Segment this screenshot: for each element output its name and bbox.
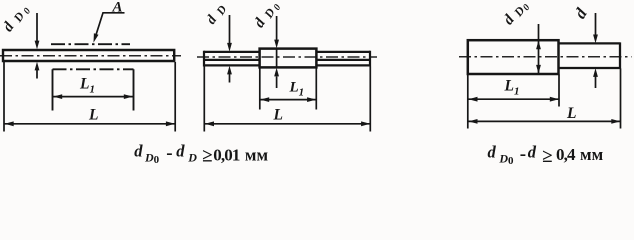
- caption 1: [134, 141, 268, 166]
- L dimension line drawing 2: [205, 123, 370, 125]
- svg-text:d: d: [176, 141, 185, 160]
- rod 3 thick body: [468, 40, 559, 74]
- svg-text:L1: L1: [504, 78, 520, 98]
- L dimension line drawing 3: [468, 120, 620, 122]
- svg-text:0: 0: [154, 154, 160, 166]
- svg-text:d: d: [251, 15, 269, 30]
- L1 extension lines drawing 3: [468, 75, 559, 129]
- svg-text:мм: мм: [245, 145, 269, 164]
- svg-text:L: L: [273, 107, 283, 124]
- centerline (axis) of rod 1: [0, 55, 181, 57]
- svg-text:D: D: [214, 3, 230, 18]
- rod 3 thin end: [559, 42, 621, 69]
- label d (rotated) drawing 3: [570, 4, 591, 22]
- svg-text:0,01: 0,01: [213, 145, 240, 164]
- centerline of rod 2: [197, 56, 377, 58]
- label d_D0 (rotated) drawing 1: [0, 1, 33, 37]
- svg-text:d: d: [570, 4, 591, 22]
- rod 1 body outline: [3, 49, 175, 62]
- svg-text:L: L: [88, 107, 98, 124]
- rod 2 end sections outline: [204, 51, 370, 67]
- svg-text:мм: мм: [580, 145, 604, 164]
- dimension d_D0 drawing 2 (vertical at thick middle): [276, 16, 278, 88]
- L extension line right drawing 3: [620, 69, 622, 129]
- dimension d_D drawing 2 (vertical at thin end): [229, 15, 231, 83]
- svg-text:d: d: [134, 141, 143, 160]
- L1 extension lines drawing 2: [260, 68, 317, 110]
- label d_D0 (rotated) drawing 3: [501, 0, 533, 30]
- svg-text:0: 0: [508, 155, 514, 167]
- svg-text:L: L: [566, 105, 576, 122]
- rod 2 thick middle section: [260, 49, 317, 68]
- svg-text:L1: L1: [289, 80, 305, 99]
- dimension d_D0 drawing 3 (inside arrows): [538, 24, 540, 74]
- svg-text:d: d: [204, 12, 221, 27]
- label d_D (rotated) drawing 2: [204, 1, 230, 28]
- svg-text:0: 0: [22, 6, 33, 16]
- leader for A: [96, 13, 125, 36]
- dimension d drawing 3 (vertical at thin end): [595, 13, 597, 88]
- svg-text:d: d: [0, 19, 18, 35]
- centerline of rod 3: [459, 56, 632, 58]
- svg-text:≥: ≥: [202, 145, 212, 166]
- dimension d_D0 drawing 1 (vertical): [36, 13, 38, 79]
- L extension lines drawing 1: [4, 62, 175, 132]
- L1 dimension line drawing 3: [468, 98, 558, 100]
- svg-text:D: D: [498, 152, 508, 166]
- label d_D0 (rotated) drawing 2: [251, 0, 283, 33]
- caption 2: [488, 142, 604, 167]
- svg-text:D: D: [144, 151, 154, 165]
- L1 dimension line drawing 1: [53, 96, 133, 98]
- svg-text:d: d: [488, 142, 497, 161]
- svg-text:0,4: 0,4: [556, 145, 576, 164]
- L dimension line drawing 1: [5, 123, 176, 125]
- L1 dimension line drawing 2: [260, 99, 316, 101]
- svg-text:≥: ≥: [542, 146, 552, 167]
- svg-text:-: -: [520, 144, 526, 165]
- L extension lines drawing 2: [204, 67, 370, 132]
- svg-text:L1: L1: [79, 76, 95, 96]
- L1 gauge bracket drawing 1: [53, 68, 134, 70]
- gauge mark dash-dot line A: [51, 43, 130, 45]
- svg-text:d: d: [528, 142, 537, 161]
- svg-text:D: D: [187, 151, 197, 165]
- svg-text:-: -: [166, 143, 172, 164]
